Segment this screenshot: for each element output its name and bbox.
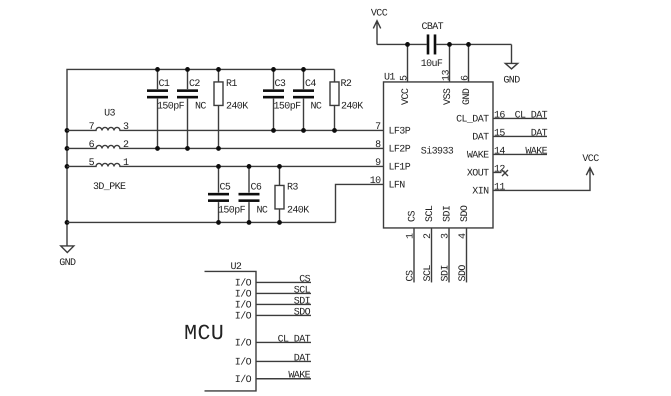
svg-text:3: 3 [123, 122, 129, 133]
svg-text:VCC: VCC [371, 8, 388, 19]
svg-text:15: 15 [494, 128, 505, 139]
coil pins 7-3 (row1) [67, 122, 384, 133]
svg-text:DAT: DAT [294, 353, 311, 364]
MCU U2 body [184, 262, 256, 391]
pin12 XOUT no-connect [493, 171, 502, 173]
svg-text:5: 5 [89, 158, 95, 169]
svg-text:I/O: I/O [235, 357, 252, 369]
MCU pin WAKE [256, 378, 311, 380]
node: left bus wire [67, 69, 335, 246]
svg-text:NC: NC [195, 101, 206, 112]
wire LFN to bottom bus [336, 184, 384, 222]
svg-text:5: 5 [400, 75, 411, 81]
wire VCC bus to GND (top) [377, 43, 512, 45]
svg-text:CS: CS [407, 211, 418, 222]
svg-text:C1: C1 [159, 79, 170, 90]
svg-text:13: 13 [442, 70, 453, 81]
wire pin15 DAT [493, 135, 547, 137]
svg-text:I/O: I/O [235, 374, 252, 386]
svg-text:10uF: 10uF [421, 59, 443, 70]
resistor R1 [214, 69, 248, 148]
svg-text:VSS: VSS [443, 88, 454, 105]
ground GND (top right) [503, 44, 520, 86]
svg-text:16: 16 [494, 110, 505, 121]
svg-text:SDO: SDO [294, 307, 311, 318]
MCU pin SDO [256, 314, 311, 316]
wire pin11 XIN to VCC [493, 168, 594, 191]
svg-text:I/O: I/O [235, 338, 252, 350]
wire U1 pin1 CS [413, 228, 415, 283]
svg-text:14: 14 [494, 146, 505, 157]
svg-text:SDI: SDI [294, 296, 310, 307]
wire pin16 CL_DAT [493, 117, 547, 119]
svg-text:I/O: I/O [235, 278, 252, 290]
svg-text:R3: R3 [287, 182, 298, 193]
junction dots row3 [216, 164, 221, 169]
svg-text:LFN: LFN [389, 181, 406, 192]
junction dots top bus 2 [155, 67, 160, 72]
svg-text:7: 7 [89, 122, 95, 133]
svg-text:240K: 240K [226, 101, 248, 112]
svg-text:MCU: MCU [184, 322, 224, 346]
svg-text:C4: C4 [305, 79, 316, 90]
svg-text:1: 1 [123, 158, 129, 169]
svg-text:SDO: SDO [458, 265, 469, 282]
svg-text:DAT: DAT [531, 128, 548, 139]
svg-text:SDI: SDI [442, 206, 453, 222]
junction dots row1 [271, 128, 276, 133]
svg-text:SDI: SDI [441, 265, 452, 281]
junction dots left bus [65, 128, 70, 133]
svg-text:150pF: 150pF [157, 101, 185, 112]
svg-text:CS: CS [299, 274, 310, 285]
wire U1 pin5 to bus [407, 44, 409, 81]
svg-text:I/O: I/O [235, 300, 252, 312]
svg-text:SCL: SCL [425, 205, 436, 222]
svg-text:11: 11 [494, 182, 505, 193]
capacitor C3 [263, 69, 301, 130]
svg-text:DAT: DAT [472, 133, 489, 144]
MCU pin CS [256, 281, 311, 283]
wire U1 pin13 to bus [449, 44, 451, 81]
junction dots row2 [155, 146, 160, 151]
svg-text:2: 2 [123, 140, 129, 151]
svg-text:CL_DAT: CL_DAT [456, 115, 489, 126]
svg-text:C3: C3 [275, 79, 286, 90]
svg-text:SCL: SCL [423, 265, 434, 282]
svg-text:NC: NC [311, 101, 322, 112]
svg-text:LF2P: LF2P [389, 145, 411, 156]
svg-text:CL_DAT: CL_DAT [278, 334, 311, 345]
svg-text:VCC: VCC [582, 154, 599, 165]
svg-text:NC: NC [257, 205, 268, 216]
junction dots bottom bus [216, 220, 221, 225]
svg-text:1: 1 [406, 233, 417, 239]
MCU pin SDI [256, 303, 311, 305]
svg-text:LF1P: LF1P [389, 163, 411, 174]
capacitor C2 [177, 69, 206, 148]
svg-text:3: 3 [441, 233, 452, 239]
resistor R2 [330, 69, 363, 130]
wire U1 pin2 SCL [431, 228, 433, 283]
power flag VCC (top left) [371, 8, 388, 44]
capacitor CBAT [421, 22, 444, 70]
svg-text:8: 8 [375, 140, 381, 151]
svg-text:WAKE: WAKE [467, 151, 489, 162]
svg-text:R1: R1 [226, 79, 237, 90]
capacitor C1 [147, 69, 185, 148]
svg-text:SDO: SDO [460, 205, 471, 222]
wire U1 pin6 to bus [468, 44, 470, 81]
svg-text:150pF: 150pF [274, 101, 302, 112]
svg-text:R2: R2 [341, 79, 352, 90]
svg-text:U1: U1 [384, 72, 395, 83]
svg-text:CL_DAT: CL_DAT [515, 110, 548, 121]
svg-text:GND: GND [503, 75, 520, 86]
resistor R3 [275, 166, 309, 222]
MCU pin DAT [256, 360, 311, 362]
svg-text:3D_PKE: 3D_PKE [93, 182, 126, 193]
svg-text:WAKE: WAKE [288, 371, 310, 382]
svg-text:150pF: 150pF [218, 205, 246, 216]
svg-text:WAKE: WAKE [525, 146, 547, 157]
svg-text:LF3P: LF3P [389, 127, 411, 138]
svg-text:C2: C2 [189, 79, 200, 90]
coil pins 5-1 (row3) [67, 158, 384, 169]
capacitor C4 [293, 69, 322, 130]
svg-text:GND: GND [462, 88, 473, 105]
MCU pin CL_DAT [256, 341, 311, 343]
svg-text:CBAT: CBAT [421, 22, 443, 33]
MCU pin SCL [256, 292, 311, 294]
svg-text:SCL: SCL [294, 285, 311, 296]
wire pin14 WAKE [493, 153, 547, 155]
capacitor C5 [208, 166, 246, 222]
svg-text:I/O: I/O [235, 311, 252, 323]
ground GND (left) [59, 246, 76, 269]
inductor U3 3D_PKE [93, 108, 126, 192]
coil pins 6-2 (row2) [67, 140, 384, 151]
svg-text:240K: 240K [341, 101, 363, 112]
wire U1 pin4 SDO [466, 228, 468, 283]
svg-text:C5: C5 [220, 182, 231, 193]
op-amp U1 Si3933 body [384, 72, 494, 228]
capacitor C6 [239, 166, 268, 222]
svg-text:U3: U3 [104, 108, 115, 119]
svg-text:XOUT: XOUT [467, 169, 489, 180]
wire U1 pin3 SDI [448, 228, 450, 283]
svg-text:GND: GND [59, 258, 76, 269]
svg-text:C6: C6 [251, 182, 262, 193]
bottom bus wire [67, 221, 336, 223]
svg-text:4: 4 [458, 233, 469, 239]
svg-text:U2: U2 [231, 262, 242, 273]
svg-text:I/O: I/O [235, 289, 252, 301]
svg-text:10: 10 [370, 176, 381, 187]
svg-text:Si3933: Si3933 [421, 145, 454, 157]
svg-text:7: 7 [375, 122, 381, 133]
junction dots top bus [405, 42, 410, 47]
svg-text:VCC: VCC [401, 88, 412, 105]
svg-text:6: 6 [89, 140, 95, 151]
svg-text:XIN: XIN [472, 187, 489, 198]
svg-text:2: 2 [423, 233, 434, 239]
svg-text:6: 6 [461, 75, 472, 81]
svg-text:CS: CS [406, 270, 417, 281]
svg-text:240K: 240K [287, 205, 309, 216]
svg-text:9: 9 [375, 158, 381, 169]
